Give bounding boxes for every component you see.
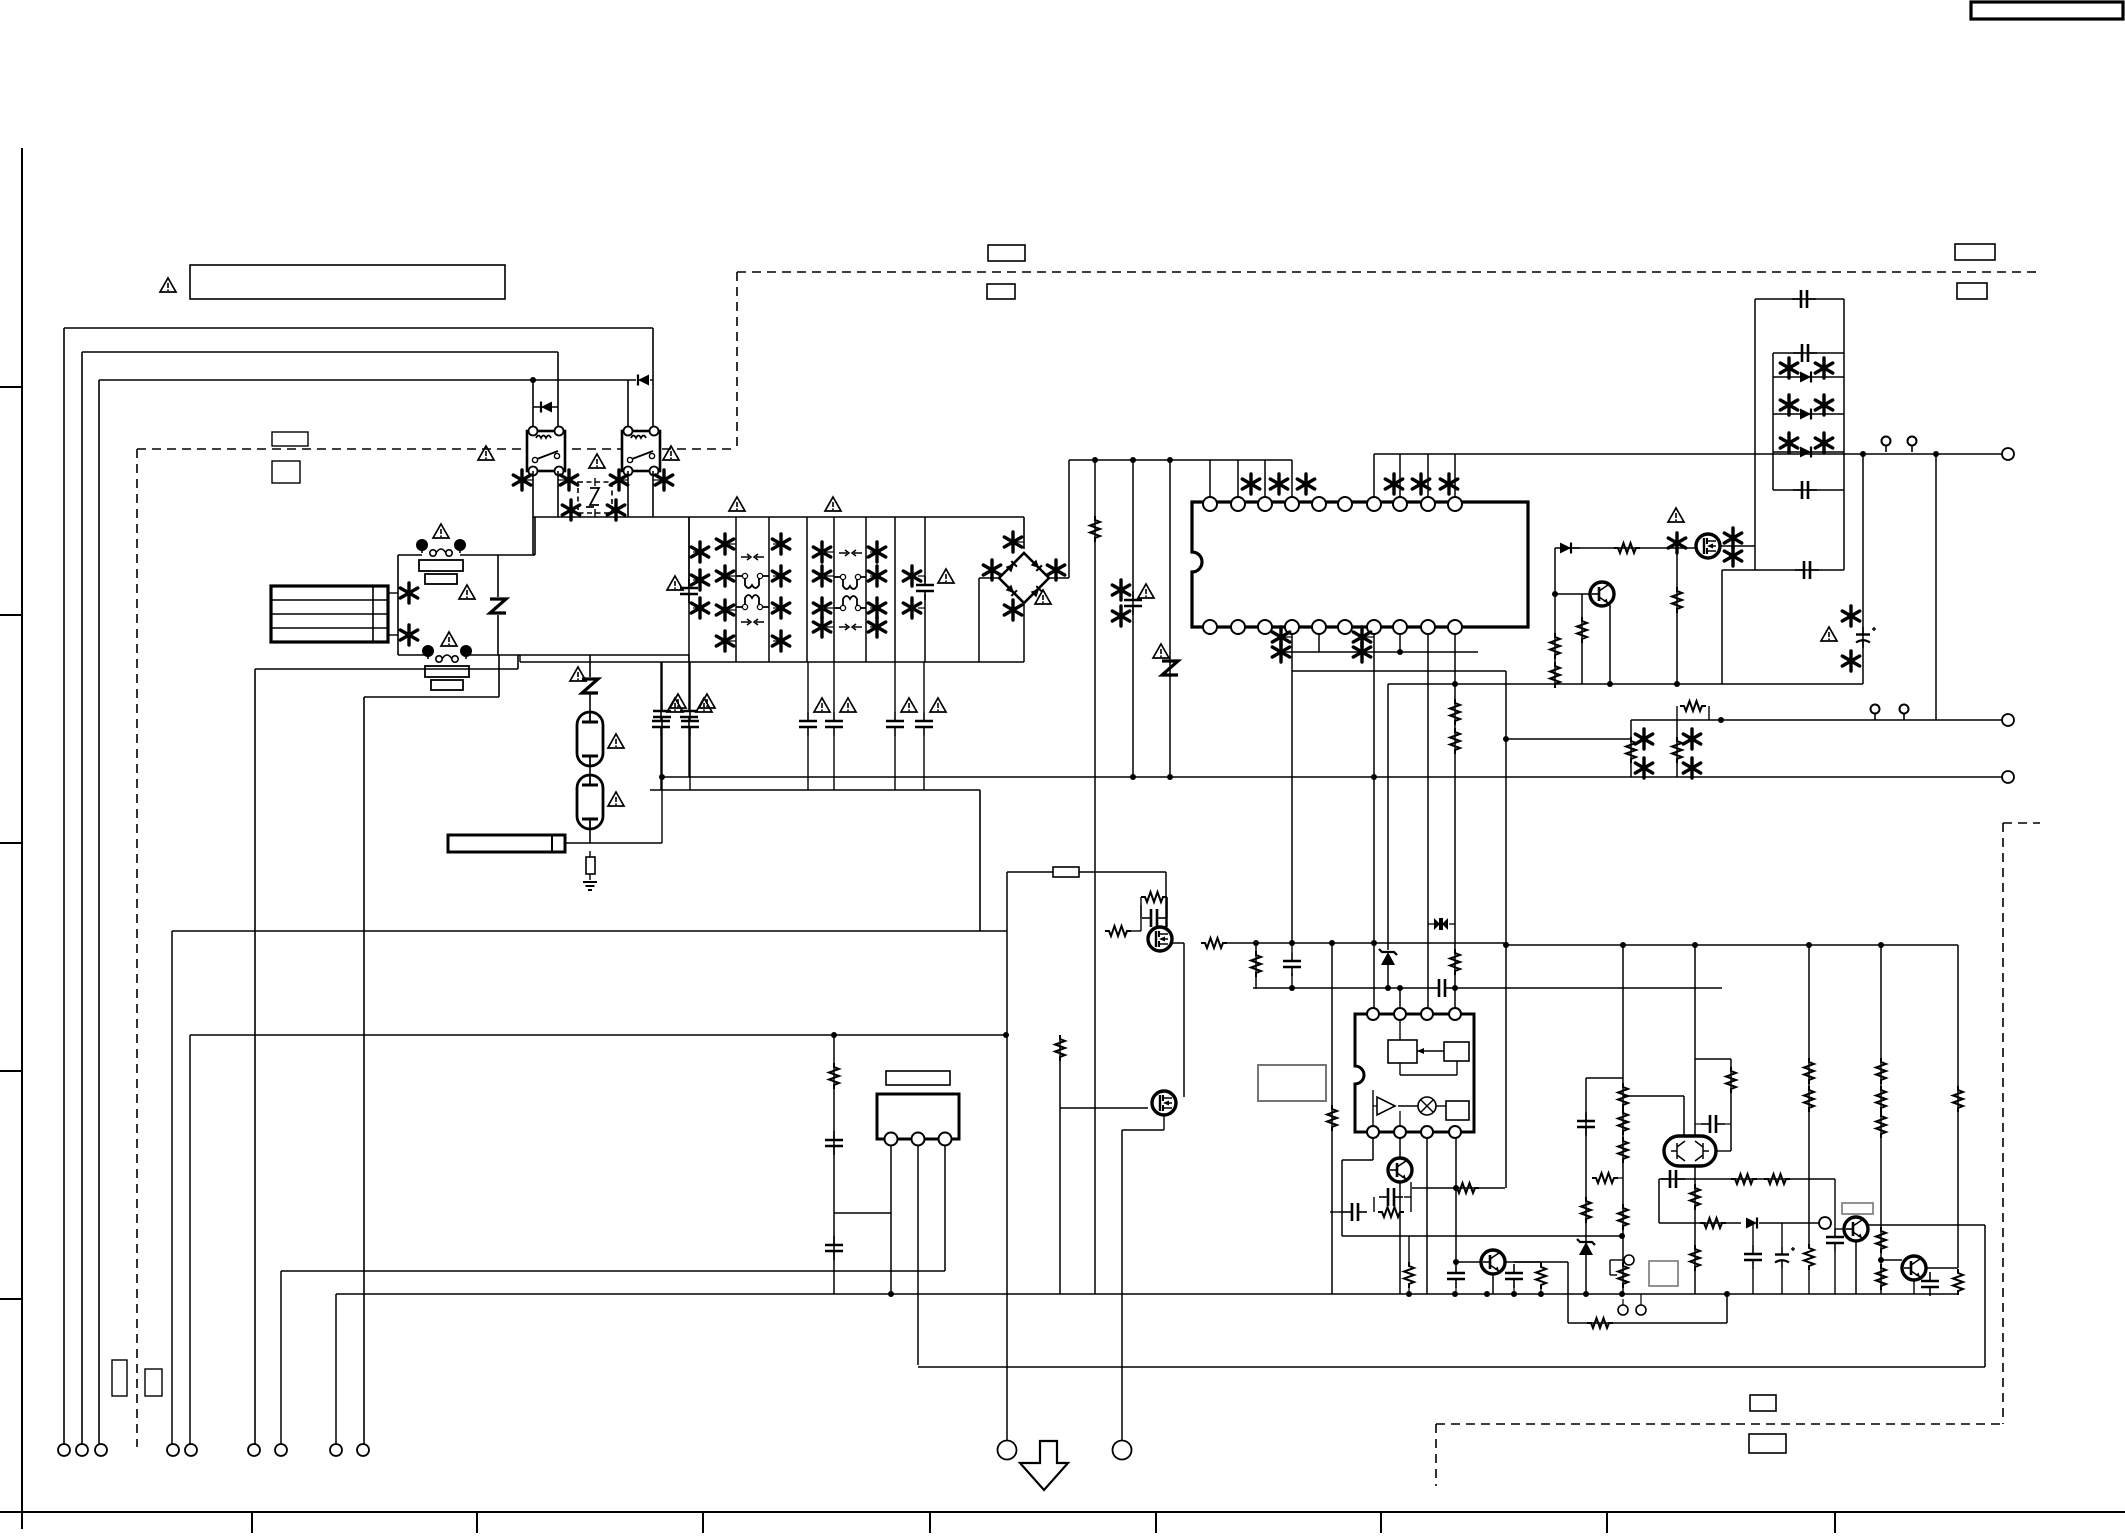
bus aux b [1454, 987, 1722, 989]
wire [1122, 1129, 1164, 1131]
junction [1484, 1291, 1490, 1297]
wire [1255, 943, 1257, 989]
safety star [1004, 600, 1021, 620]
warning mark [441, 632, 457, 646]
wire [1913, 1280, 1915, 1294]
wire [1455, 1188, 1457, 1262]
wire tube link [589, 766, 591, 775]
IC U1 pin [1367, 497, 1381, 511]
resonator bar component [448, 835, 565, 852]
IC U2 pin [1394, 1008, 1406, 1020]
gate wire2 [1573, 547, 1696, 549]
star stub [826, 607, 834, 609]
star stub [1362, 636, 1374, 638]
title block box [1971, 2, 2123, 19]
capacitor [1826, 1228, 1844, 1252]
resistor gate [1614, 543, 1640, 553]
wire [660, 736, 662, 790]
safety star [813, 598, 830, 618]
resistor [1618, 1262, 1628, 1288]
junction [1253, 940, 1259, 946]
wire drop [189, 1035, 191, 1444]
IC U1 pin [1393, 620, 1407, 634]
loop right [1843, 299, 1845, 570]
internal wire [1417, 1050, 1444, 1052]
IC U2 pin [1421, 1008, 1433, 1020]
warning mark [840, 698, 856, 712]
dashed boundary left vertical [136, 449, 138, 1447]
junction [1167, 457, 1173, 463]
internal wire [1399, 1021, 1401, 1040]
resistor [1953, 1269, 1963, 1295]
safety star [813, 617, 830, 637]
warning mark [901, 698, 917, 712]
resistor [1690, 1245, 1700, 1271]
ferrite bead Z [582, 679, 598, 693]
junction [1452, 1291, 1458, 1297]
capacitor [825, 1131, 843, 1155]
wire [1331, 943, 1333, 1294]
safety star [1412, 474, 1429, 494]
wire [1585, 1078, 1587, 1294]
warning mark [825, 497, 841, 511]
wire emitter [1609, 605, 1611, 684]
junction [1130, 774, 1136, 780]
safety star [1668, 533, 1685, 553]
wire IC pin up [1399, 454, 1401, 497]
wire [1449, 923, 1455, 925]
connector label box [145, 1369, 162, 1396]
wire Z bottom [497, 615, 499, 655]
resistor R startup [1090, 516, 1100, 542]
IC U1 pin [1312, 620, 1326, 634]
internal wire [1456, 1061, 1458, 1075]
connector out3 [2002, 771, 2014, 783]
warning mark [1821, 627, 1837, 641]
wire [1567, 1262, 1569, 1323]
warning mark [1153, 644, 1169, 658]
star stub [729, 640, 736, 642]
wire F2 out [466, 654, 689, 656]
wire [1399, 1138, 1401, 1158]
star stub [826, 575, 834, 577]
warning mark [930, 698, 946, 712]
warning mark [1668, 508, 1684, 522]
filter wire [894, 517, 896, 662]
diode [1746, 1218, 1757, 1229]
wire IC pin up [1264, 460, 1266, 497]
wire column R [1094, 460, 1096, 1294]
safety star [1842, 651, 1859, 671]
bus aux [1253, 987, 1430, 989]
capacitor C [1793, 344, 1817, 362]
wire Z top [497, 555, 499, 597]
wire bridge right [1049, 577, 1069, 579]
connector CN [330, 1444, 342, 1456]
wire [1609, 1260, 1611, 1275]
wire [1694, 1166, 1696, 1294]
fuse F2 [422, 645, 472, 690]
IC U1 pin [1231, 497, 1245, 511]
DC top bus A [1069, 459, 1292, 461]
wire [1163, 1115, 1165, 1130]
IC U2 internal amp triangle [1377, 1097, 1395, 1115]
resistor [1450, 949, 1460, 975]
line filter choke T2 [834, 577, 866, 608]
wire reg pin1 [890, 1146, 892, 1294]
wire [1659, 1178, 1835, 1180]
wire IC pin10 down [1454, 634, 1456, 1008]
junction [1289, 940, 1295, 946]
wire relay2 out b [652, 471, 654, 517]
wire [1808, 945, 1810, 1244]
warning mark [570, 667, 586, 681]
wire to F1 [398, 554, 422, 556]
choke terminal [855, 574, 860, 579]
IC U1 pin [1258, 497, 1272, 511]
wire to gnd bus [979, 790, 981, 931]
resistor [1876, 1058, 1886, 1084]
resistor [1672, 587, 1682, 613]
warning mark [667, 698, 683, 712]
resistor [1201, 938, 1227, 948]
wire [1568, 1322, 1727, 1324]
connector label box [112, 1360, 127, 1396]
warning mark [589, 454, 605, 468]
warning mark [667, 576, 683, 590]
safety star [1047, 560, 1064, 580]
wire star stub [558, 479, 569, 481]
wire [1505, 1261, 1568, 1263]
resistor gate1 [1105, 926, 1131, 936]
junction [888, 1291, 894, 1297]
wire [807, 662, 809, 712]
safety star [1780, 358, 1797, 378]
safety star [400, 583, 417, 603]
resistor [1581, 1197, 1591, 1223]
wire bridge top [1023, 517, 1025, 549]
bridge diode [1031, 586, 1042, 597]
safety star [691, 598, 708, 618]
wire inlet out1 [388, 592, 398, 594]
warning mark [478, 446, 494, 460]
IC U2 pin [1449, 1126, 1461, 1138]
surge arrester tube2 [577, 775, 603, 829]
wire IC pin8 down [1399, 634, 1401, 652]
connector out1 [2002, 448, 2014, 460]
transistor Q reg [1481, 1250, 1505, 1274]
choke terminal [840, 574, 845, 579]
long wire C [281, 1270, 945, 1272]
wire [1781, 1268, 1783, 1294]
wire tube feed [589, 655, 591, 677]
safety star [813, 566, 830, 586]
star stub [870, 551, 877, 553]
capacitor C snub2 [1795, 561, 1819, 579]
ferrite bead Z [490, 599, 506, 613]
resistor [1536, 1263, 1546, 1289]
wire drain [1172, 942, 1184, 944]
connector label box [1749, 1434, 1786, 1453]
warning mark [663, 446, 679, 460]
wire diode2 link [650, 379, 653, 381]
filter wire [924, 594, 926, 662]
dashed boundary mid [137, 448, 737, 450]
connector out2 [2002, 714, 2014, 726]
warning mark [1035, 590, 1051, 604]
wire [1060, 1107, 1148, 1109]
capacitor [1701, 1115, 1725, 1133]
choke terminal [742, 604, 747, 609]
safety star [607, 500, 624, 520]
wire inlet out2 [388, 634, 398, 636]
inlet divider [272, 613, 387, 615]
wire drop [171, 931, 173, 1444]
wire F1 out [460, 554, 535, 556]
wire L3 [99, 379, 636, 381]
warning mark [1138, 584, 1154, 598]
border tick [0, 842, 22, 844]
supply bus right [1506, 944, 1958, 946]
regulator label [886, 1071, 950, 1085]
safety star [1272, 642, 1289, 662]
output bus 2 [1631, 719, 2006, 721]
warning mark [670, 694, 686, 708]
connector CN [95, 1444, 107, 1456]
border tick bottom [251, 1512, 253, 1533]
wire [1683, 1096, 1685, 1136]
coupling arrows [839, 624, 862, 630]
warning mark [729, 497, 745, 511]
wire [923, 662, 925, 712]
warning mark [696, 698, 712, 712]
diode D relay1 [541, 402, 552, 413]
page-link arrow [1020, 1441, 1068, 1490]
connector label box [987, 284, 1015, 299]
voltage regulator IC [877, 1094, 959, 1139]
capacitor CY [886, 712, 904, 736]
junction [1607, 681, 1613, 687]
capacitor [1379, 1188, 1403, 1206]
IC U2 pin [1421, 1126, 1433, 1138]
safety star [1683, 729, 1700, 749]
warning mark [938, 569, 954, 583]
connector CN [185, 1444, 197, 1456]
wire [1165, 872, 1167, 927]
capacitor C bulk [1124, 591, 1142, 615]
junction [1620, 942, 1626, 948]
diode D relay2 [638, 375, 649, 386]
wire [1292, 670, 1506, 672]
dashed boundary bottom [1436, 1423, 2003, 1425]
border tick [0, 614, 22, 616]
IC U1 pin [1203, 620, 1217, 634]
IC U2 internal block [1446, 1101, 1469, 1120]
safety star [1112, 580, 1129, 600]
resistor [1680, 701, 1706, 711]
wire [1834, 1252, 1836, 1294]
wire drain [1720, 545, 1755, 547]
choke terminal [757, 573, 762, 578]
wire tube out [589, 829, 591, 843]
capacitor CY [681, 712, 699, 736]
wire [1581, 594, 1583, 684]
border tick bottom [1606, 1512, 1608, 1533]
resistor [1731, 1174, 1757, 1184]
capacitor inline [1430, 979, 1454, 997]
wire [1410, 1182, 1412, 1212]
wire source [1721, 570, 1723, 684]
internal wire [1398, 1105, 1418, 1107]
resistor [1626, 737, 1636, 763]
star stub [729, 575, 736, 577]
star stub [693, 579, 700, 581]
wire [661, 662, 663, 702]
filter wire [688, 517, 690, 662]
border tick bottom [702, 1512, 704, 1533]
IC U2 pin [1449, 1008, 1461, 1020]
IC U2 internal block [1388, 1040, 1417, 1063]
junction [1289, 985, 1295, 991]
wire drop [1121, 1130, 1123, 1444]
wire [1722, 569, 1755, 571]
safety star [1842, 606, 1859, 626]
wire [1505, 671, 1507, 1188]
junction [1397, 649, 1403, 655]
resistor [1550, 662, 1560, 688]
internal wire [1400, 1074, 1457, 1076]
connector CN [58, 1444, 70, 1456]
wire tube feed2 [589, 694, 591, 712]
relay RY2 [622, 427, 660, 476]
wire [1622, 945, 1624, 1294]
connector CN big [1113, 1441, 1132, 1460]
wire L2 [82, 351, 558, 353]
star stub [729, 543, 736, 545]
wire [1623, 1095, 1684, 1097]
capacitor CX2 [916, 576, 934, 600]
capacitor snub [1142, 909, 1166, 927]
capacitor elco [1775, 1247, 1795, 1268]
safety star [655, 470, 672, 490]
test point [1900, 705, 1909, 721]
resistor [1953, 1086, 1963, 1112]
inlet divider v [372, 587, 374, 641]
junction [1511, 1291, 1517, 1297]
wire [688, 655, 690, 702]
connector label box [272, 461, 300, 483]
IC U1 pin [1203, 497, 1217, 511]
junction [1329, 940, 1335, 946]
capacitor [1744, 1245, 1762, 1269]
Y-cap rail [650, 789, 980, 791]
junction [1397, 985, 1403, 991]
wire [1372, 1138, 1374, 1160]
wire aux v [498, 655, 500, 697]
junction [1619, 1291, 1625, 1297]
wire reg pin2 [917, 1146, 919, 1365]
opto transistor [1388, 1158, 1412, 1182]
IC U2 pin [1367, 1126, 1379, 1138]
resistor [1550, 633, 1560, 659]
safety star [1815, 358, 1832, 378]
wire [1166, 897, 1168, 927]
safety star [1683, 758, 1700, 778]
wire base [1555, 593, 1590, 595]
junction [1003, 1032, 1009, 1038]
IC U2 pin [1394, 1126, 1406, 1138]
resistor [1450, 728, 1460, 754]
bridge diode [1006, 561, 1017, 572]
resistor [1764, 1174, 1790, 1184]
safety star [716, 566, 733, 586]
wire [1281, 651, 1478, 653]
internal wire [1436, 1105, 1446, 1107]
wire [1540, 1262, 1542, 1263]
safety star [716, 534, 733, 554]
wire [1408, 1288, 1410, 1294]
wire bridge+ up [1068, 460, 1070, 578]
wire [1291, 943, 1293, 952]
junction [1452, 681, 1458, 687]
transistor Q out [1844, 1217, 1868, 1241]
wire [1935, 454, 1937, 720]
wire L3 drop [98, 380, 100, 1444]
star stub [826, 626, 834, 628]
capacitor [1505, 1264, 1523, 1288]
wire [1862, 452, 1864, 684]
wire [1586, 1077, 1623, 1079]
dashed boundary top [737, 271, 2038, 273]
wire star stub [619, 479, 628, 481]
safety star [1724, 528, 1741, 548]
wire [1455, 1138, 1457, 1188]
wire relay2 top [627, 380, 629, 426]
star stub [773, 575, 781, 577]
safety star [691, 570, 708, 590]
long wire B [190, 1034, 1006, 1036]
wire [1868, 1224, 1985, 1226]
wire [1426, 1138, 1428, 1294]
line filter choke T1 [736, 576, 769, 607]
wire [1330, 1211, 1343, 1213]
star stub [918, 607, 925, 609]
wire [1387, 684, 1389, 950]
filter wire [865, 517, 867, 662]
regulator pin [885, 1133, 898, 1146]
AC rail top [533, 516, 1024, 518]
wire IC pin up [1454, 454, 1456, 497]
wire [1506, 738, 1631, 740]
wire [923, 736, 925, 790]
wire [833, 662, 835, 712]
resistor [1876, 1086, 1886, 1112]
wire IC pin up [1291, 460, 1293, 497]
safety star [772, 631, 789, 651]
safety star [691, 542, 708, 562]
safety star [983, 560, 1000, 580]
resistor [1404, 1262, 1414, 1288]
wire [689, 662, 691, 712]
wire [1630, 720, 1632, 777]
junction [1452, 985, 1458, 991]
resistor [1587, 1318, 1613, 1328]
wire enclosure stub [517, 655, 519, 669]
wire L1 [64, 327, 653, 329]
bridge rectifier diamond [999, 553, 1049, 603]
page border left [21, 148, 23, 1529]
wire IC pin9 down [1427, 634, 1429, 1008]
